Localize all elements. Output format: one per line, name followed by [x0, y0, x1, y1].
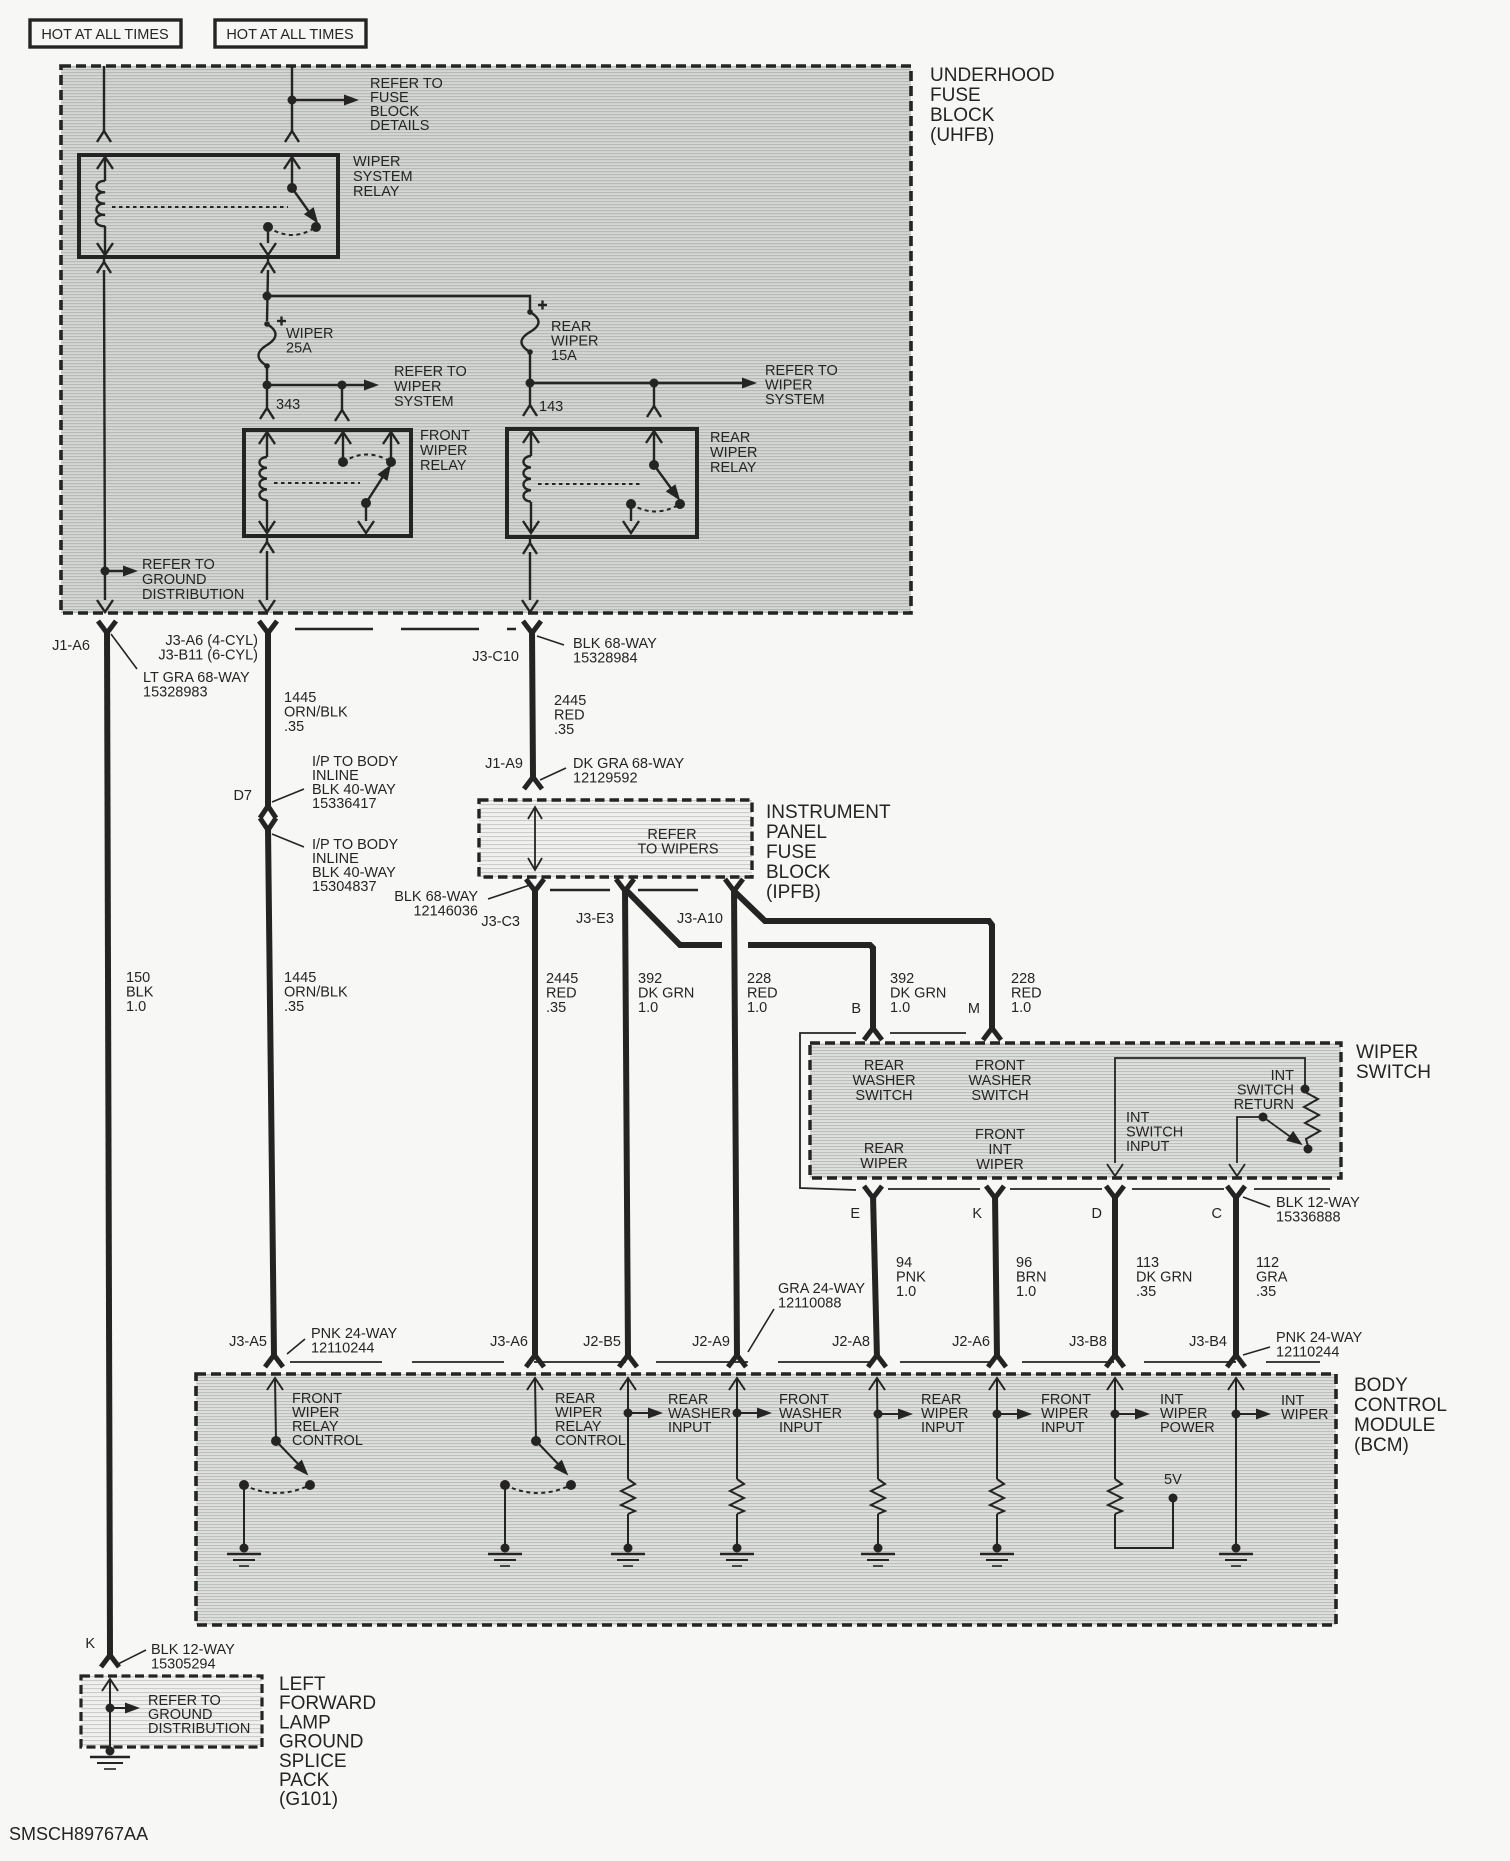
svg-text:J3-A6 (4-CYL)J3-B11 (6-CYL): J3-A6 (4-CYL)J3-B11 (6-CYL) [158, 633, 258, 664]
wire W1 from HOT feed 1 (UHFB top) [97, 66, 111, 142]
connector pin flares at BCM top [265, 1355, 283, 1367]
BCM int wiper power [1107, 1378, 1135, 1479]
BCM front washer input [729, 1378, 757, 1479]
wire 2445 RED .35 (lower, to BCM J3-A6) [532, 888, 538, 1357]
front wiper relay switch [335, 432, 399, 533]
connector PNK 24-WAY 12110244 (left callout) [287, 1339, 305, 1354]
connector pins above rear wiper relay [523, 383, 661, 417]
resistor (rear wiper input) [871, 1479, 885, 1514]
resistor (front washer input) [730, 1479, 744, 1514]
connector GRA 24-WAY 12110088 (callout) [748, 1309, 774, 1352]
svg-text:HOT AT ALL TIMES: HOT AT ALL TIMES [41, 27, 168, 43]
ground (rear washer input) [624, 1544, 633, 1553]
BCM rear wiper relay control driver [505, 1378, 571, 1544]
svg-text:D7: D7 [233, 788, 252, 804]
svg-text:K: K [972, 1206, 982, 1222]
svg-text:J1-A6: J1-A6 [52, 638, 90, 654]
connector J3-C10 (BLK 68-WAY 15328984) [523, 621, 541, 633]
exit arrow at UHFB bottom (left feed) [97, 600, 113, 612]
fuse WIPER 25A [259, 317, 287, 367]
inline connector D7 (I/P to body) [260, 806, 276, 818]
connector pin B flare [864, 1028, 882, 1040]
wire fuse to junction [529, 352, 531, 405]
wire: left feed down UHFB [104, 270, 105, 600]
ground (BCM front wiper relay control) [240, 1544, 249, 1553]
rear wiper relay switch [623, 431, 673, 533]
wire: relay output down to fuses [267, 270, 268, 321]
wiper system relay linkage (dashed) [112, 206, 288, 208]
wire 228 RED branch to wiper switch pin M [735, 892, 992, 1028]
svg-text:J1-A9: J1-A9 [485, 756, 523, 772]
svg-text:J3-A6: J3-A6 [490, 1334, 528, 1350]
svg-text:FRONTWASHERSWITCH: FRONTWASHERSWITCH [968, 1058, 1031, 1104]
wiper switch thin outline [800, 1033, 966, 1190]
underhood fuse block UHFB outline [61, 66, 911, 613]
wire 96 BRN 1.0 [995, 1195, 997, 1358]
rear wiper relay linkage (dashed) [538, 483, 640, 485]
svg-text:J2-B5: J2-B5 [583, 1334, 621, 1350]
body control module BCM outline [196, 1374, 1336, 1625]
wire 392 DK GRN 1.0 (to BCM J2-B5) [625, 888, 628, 1357]
svg-text:J2-A6: J2-A6 [952, 1334, 990, 1350]
connector face dashes (IPFB bottom) [550, 889, 712, 891]
wire 94 PNK 1.0 [873, 1195, 877, 1358]
power feed box HOT AT ALL TIMES (right) [215, 20, 366, 47]
int switch wiper arm [1229, 1117, 1292, 1176]
connector J1-A6 (LT GRA 68-WAY 15328983) [98, 621, 116, 633]
svg-text:REARWIPER: REARWIPER [860, 1141, 908, 1172]
connector pins above front wiper relay [260, 385, 349, 421]
connector J1-A9 (DK GRA 68-WAY 12129592) [524, 777, 542, 789]
wiper system relay switch [260, 157, 312, 255]
wire 2445 RED .35 (upper) [532, 630, 533, 777]
connector face line (BCM top) [290, 1361, 1320, 1363]
svg-text:J2-A8: J2-A8 [832, 1334, 870, 1350]
arrow REFER TO WIPER SYSTEM (rear) [530, 382, 742, 384]
ground (BCM rear wiper relay control) [501, 1544, 510, 1553]
ground (front washer input) [733, 1544, 742, 1553]
svg-text:J2-A9: J2-A9 [692, 1334, 730, 1350]
arrow REFER TO WIPER SYSTEM (front) [267, 384, 364, 386]
connector face line (wiper switch bottom) [888, 1188, 1330, 1190]
ground (int wiper sense) [1232, 1544, 1241, 1553]
svg-text:343: 343 [276, 397, 300, 413]
BCM front wiper input [989, 1378, 1017, 1479]
IPFB internal path (double arrow) [528, 807, 542, 870]
svg-text:FRONTWIPERINPUT: FRONTWIPERINPUT [1041, 1392, 1091, 1436]
wire 1445 ORN/BLK .35 (upper) [265, 630, 271, 806]
svg-text:J3-C3: J3-C3 [481, 914, 520, 930]
ground splice pack G101 outline [81, 1676, 262, 1747]
wire W2 from HOT feed 2 (UHFB top) [285, 66, 299, 142]
wire 1445 ORN/BLK .35 (lower, to BCM J3-A5) [268, 828, 274, 1357]
int switch input trace [1107, 1058, 1305, 1176]
resistor (int wiper power) [1108, 1479, 1122, 1514]
svg-text:C: C [1212, 1206, 1222, 1222]
ground (rear wiper input) [874, 1544, 883, 1553]
rear wiper relay coil [523, 431, 539, 533]
relay: REAR WIPER RELAY box [507, 429, 697, 537]
connector PNK 24-WAY 12110244 (right callout) [1243, 1347, 1270, 1355]
wire 392 DK GRN branch to wiper switch pin B [626, 890, 722, 945]
connector J3-E3 [616, 879, 634, 891]
power feed box HOT AT ALL TIMES (left) [30, 20, 181, 47]
resistor (front wiper input) [990, 1479, 1004, 1514]
connector J3-A6(4-CYL)/J3-B11(6-CYL) [259, 621, 277, 633]
svg-text:J3-B8: J3-B8 [1069, 1334, 1107, 1350]
wiper switch outline [810, 1043, 1341, 1178]
connector pin D [1106, 1186, 1124, 1198]
connector K (BLK 12-WAY 15305294) [101, 1655, 119, 1667]
connector pin C (BLK 12-WAY 15336888) [1227, 1186, 1245, 1198]
svg-text:J3-E3: J3-E3 [576, 911, 614, 927]
svg-text:K: K [85, 1636, 95, 1652]
ground (front wiper input) [993, 1544, 1002, 1553]
connector pin below front wiper relay [259, 538, 275, 612]
G101 internal wire [102, 1679, 125, 1748]
connector pin below rear wiper relay [522, 538, 538, 612]
svg-text:J3-C10: J3-C10 [472, 649, 519, 665]
ground G101 [106, 1747, 115, 1756]
wiper system relay coil [96, 157, 113, 255]
wire 228 RED 1.0 (to BCM J2-A9) [734, 888, 737, 1357]
svg-text:B: B [851, 1001, 861, 1017]
BCM front wiper relay control driver [244, 1378, 310, 1544]
resistor (rear washer input) [621, 1479, 635, 1514]
connector J3-A10 [725, 879, 743, 891]
junction under WIPER fuse [263, 381, 272, 390]
arrow REFER TO FUSE BLOCK DETAILS [292, 99, 344, 101]
connector pin K [986, 1186, 1004, 1198]
junction above WIPER fuse [263, 292, 272, 301]
svg-text:J3-A5: J3-A5 [229, 1334, 267, 1350]
svg-text:HOT AT ALL TIMES: HOT AT ALL TIMES [226, 27, 353, 43]
BCM rear washer input [620, 1378, 648, 1479]
int switch potentiometer resistor [1304, 1092, 1320, 1146]
svg-text:143: 143 [539, 399, 563, 415]
5V pull-up return [1115, 1502, 1173, 1548]
front wiper relay coil [259, 432, 275, 533]
svg-text:E: E [850, 1206, 860, 1222]
svg-text:SMSCH89767AA: SMSCH89767AA [9, 1824, 148, 1844]
BCM rear wiper input [869, 1378, 898, 1479]
svg-text:D: D [1092, 1206, 1102, 1222]
connector pin M flare [983, 1028, 1001, 1040]
wire 113 DK GRN .35 [1112, 1195, 1118, 1358]
connector J3-C3 (BLK 68-WAY 12146036) [526, 879, 544, 891]
arrow REFER TO GROUND DISTRIBUTION [105, 570, 124, 572]
instrument panel fuse block IPFB outline [479, 800, 752, 877]
svg-text:M: M [968, 1001, 980, 1017]
connector pin E [864, 1186, 882, 1198]
wire 112 GRA .35 [1233, 1195, 1239, 1358]
wire 150 BLK 1.0 (left trunk) [107, 630, 110, 1655]
front wiper relay linkage (dashed) [274, 482, 360, 484]
fuse REAR WIPER 15A [522, 301, 548, 353]
BCM int wiper sense [1228, 1378, 1256, 1544]
junction: ground distribution tap [101, 567, 110, 576]
connector pins below wiper system relay [97, 257, 275, 273]
junction under REAR WIPER fuse [526, 379, 535, 388]
junction on W2 [288, 96, 297, 105]
svg-text:J3-B4: J3-B4 [1189, 1334, 1227, 1350]
wire across to REAR WIPER fuse [267, 296, 530, 312]
svg-text:J3-A10: J3-A10 [677, 911, 723, 927]
relay: FRONT WIPER RELAY box [244, 430, 411, 536]
connector face dashes (UHFB bottom) [295, 628, 516, 630]
svg-text:FRONTWIPERRELAY: FRONTWIPERRELAY [420, 428, 470, 474]
relay: WIPER SYSTEM RELAY box [79, 155, 338, 257]
wire fuse to junction [266, 366, 268, 408]
svg-text:5V: 5V [1164, 1472, 1182, 1488]
